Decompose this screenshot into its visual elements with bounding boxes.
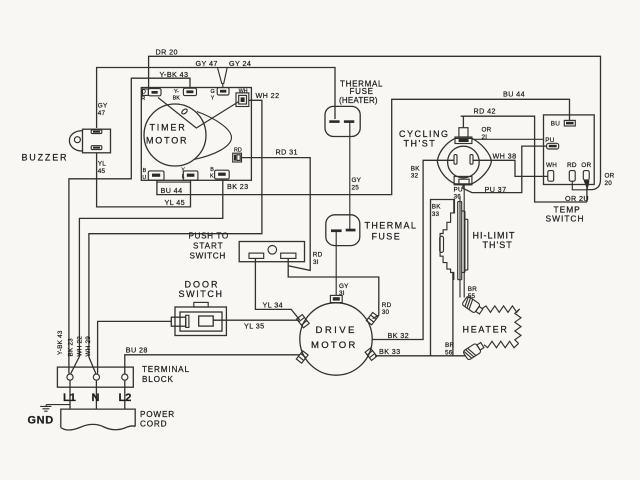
wire DR20 timer-OR to temp-switch-OR (149, 56, 601, 189)
svg-text:WH 29: WH 29 (85, 336, 92, 357)
buzzer hole (74, 137, 80, 143)
svg-text:TERMINAL: TERMINAL (142, 365, 190, 374)
pts circle (268, 246, 277, 255)
timer terminal OR (142, 89, 161, 96)
svg-text:45: 45 (98, 168, 106, 175)
buzzer terminal bottom (91, 146, 102, 150)
svg-text:SWITCH: SWITCH (179, 289, 224, 299)
svg-text:MOTOR: MOTOR (146, 136, 188, 146)
wire YL34 PTS to motor (255, 259, 299, 321)
svg-text:N: N (92, 392, 100, 404)
wire RD31 timer to push-to-start (242, 158, 311, 271)
timer terminal BK (215, 170, 230, 179)
svg-text:L: L (182, 174, 185, 180)
svg-text:GND: GND (28, 415, 54, 427)
svg-text:YL: YL (98, 161, 106, 168)
svg-text:47: 47 (98, 110, 106, 117)
temp terminal OR (583, 171, 589, 180)
wire WH22 timer to terminal block N (89, 100, 262, 373)
svg-text:BUZZER: BUZZER (22, 153, 69, 163)
svg-text:BK 33: BK 33 (379, 347, 401, 356)
svg-text:K: K (210, 174, 214, 180)
timer terminal RD right (233, 153, 242, 162)
svg-text:YL 35: YL 35 (244, 322, 265, 331)
svg-text:BK: BK (411, 165, 420, 172)
wire cycling top to RD42 line (461, 116, 587, 202)
hi-limit thermostat body (440, 200, 454, 281)
svg-text:OR: OR (482, 127, 492, 134)
svg-text:DRIVE: DRIVE (316, 325, 357, 336)
motor left-bottom terminal (296, 351, 308, 363)
svg-text:WH 22: WH 22 (76, 336, 83, 357)
thermal fuse heater blob (325, 106, 360, 136)
wire GY47 buzzer to thermal-fuse-heater (97, 68, 335, 129)
svg-text:20: 20 (605, 180, 613, 187)
heater connector BR55 (462, 296, 484, 316)
svg-text:HI-LIMIT: HI-LIMIT (473, 230, 516, 240)
wire BK23 timer to terminal block L1 (71, 180, 223, 373)
svg-text:GY: GY (98, 103, 108, 110)
svg-text:OR: OR (581, 162, 591, 169)
motor right-bottom terminal (365, 348, 377, 360)
svg-text:BK 23: BK 23 (227, 182, 249, 191)
temp switch box (544, 115, 595, 185)
svg-text:GY: GY (352, 177, 362, 184)
timer cam lobe (194, 112, 232, 160)
svg-text:(HEATER): (HEATER) (339, 96, 378, 105)
wire BU28 terminal block L2 to motor (125, 355, 300, 374)
svg-text:BU 44: BU 44 (161, 186, 183, 195)
svg-text:WH: WH (239, 88, 248, 94)
wire Y-BK43 timer to terminal block L1 (69, 78, 190, 373)
svg-text:MOTOR: MOTOR (311, 340, 358, 351)
svg-text:B: B (143, 168, 147, 174)
svg-text:POWER: POWER (140, 410, 175, 419)
door switch contact (199, 316, 214, 326)
svg-text:RD: RD (313, 252, 323, 259)
motor top terminal (330, 295, 342, 302)
svg-text:HEATER: HEATER (463, 324, 509, 334)
svg-text:RD 42: RD 42 (474, 107, 496, 116)
terminal block box (57, 367, 133, 387)
wire WH29 door switch to terminal block N (98, 321, 172, 373)
svg-text:Y: Y (211, 96, 215, 102)
svg-text:WH: WH (546, 162, 557, 169)
timer terminal GY (217, 88, 229, 95)
svg-text:BK 23: BK 23 (68, 338, 75, 357)
fuse2 left dash (331, 229, 342, 232)
temp terminal RD (569, 171, 575, 182)
svg-text:SWITCH: SWITCH (546, 214, 585, 224)
door switch tab (194, 302, 208, 307)
temp terminal BU (564, 120, 575, 126)
svg-text:WH 38: WH 38 (493, 152, 517, 161)
svg-text:30: 30 (382, 309, 390, 316)
svg-text:PU: PU (545, 137, 554, 144)
post L2 (122, 374, 128, 380)
wire jumper above BU 44 label (157, 181, 191, 183)
timer terminal YL (183, 171, 198, 180)
wire BU44 timer to temp switch BU (157, 99, 570, 194)
svg-text:BU 28: BU 28 (126, 346, 148, 355)
svg-text:TIMER: TIMER (150, 123, 187, 133)
svg-text:G: G (211, 89, 215, 95)
svg-text:Y-: Y- (174, 89, 179, 95)
wire RD30 PTS to drive motor (288, 259, 379, 319)
svg-text:BK: BK (432, 204, 441, 211)
svg-text:32: 32 (411, 173, 419, 180)
svg-text:BK 32: BK 32 (388, 331, 410, 340)
cycling thermostat blob (437, 138, 491, 184)
svg-text:U: U (142, 175, 146, 181)
svg-text:PU: PU (454, 186, 463, 193)
wire BK33 motor to hi-limit and heater BR56 (375, 200, 466, 356)
svg-text:TH'ST: TH'ST (404, 138, 437, 148)
timer terminal BU (148, 171, 164, 180)
svg-text:SWITCH: SWITCH (190, 252, 227, 261)
wire GY25 between thermal fuses (349, 122, 351, 230)
temp terminal WH (548, 171, 554, 182)
power cord box (61, 409, 135, 430)
timer lever lines (158, 98, 239, 129)
svg-text:RD 31: RD 31 (276, 147, 298, 156)
svg-text:OR: OR (605, 173, 615, 180)
pts left terminal (249, 253, 264, 258)
hi-limit right steps (462, 211, 468, 272)
svg-text:BU 44: BU 44 (503, 90, 525, 99)
heater connector BR56 (463, 341, 486, 361)
junction wedge under OR terminal (584, 181, 590, 191)
svg-text:DOOR: DOOR (185, 279, 220, 289)
buzzer tab (69, 131, 82, 151)
svg-text:FUSE: FUSE (372, 232, 402, 242)
door switch plug (171, 315, 189, 327)
svg-text:RD: RD (382, 302, 392, 309)
svg-text:BLOCK: BLOCK (142, 375, 174, 384)
svg-text:WH 22: WH 22 (256, 91, 280, 100)
wire YL45 buzzer to timer YL (97, 153, 191, 207)
door switch outer (175, 307, 226, 336)
wire OR21 cycling to temp switch (472, 138, 544, 140)
heater zigzag top (482, 306, 520, 312)
wire ground to L1 (46, 404, 70, 406)
heater zigzag right (515, 309, 521, 344)
timer lever bead (181, 108, 188, 115)
fuse1 left dash (329, 120, 339, 123)
svg-text:33: 33 (432, 211, 440, 218)
svg-text:25: 25 (352, 185, 360, 192)
cycling left bar (454, 155, 457, 165)
timer motor box (141, 88, 251, 181)
svg-text:BR: BR (445, 342, 454, 349)
svg-text:PU 37: PU 37 (485, 185, 507, 194)
timer terminal Y-BK (183, 88, 196, 95)
hi-limit inner capsule (440, 236, 444, 252)
post N (93, 374, 99, 380)
post leads to power cord (70, 380, 125, 409)
svg-text:Y: Y (181, 167, 185, 173)
svg-text:START: START (193, 242, 224, 251)
wire hi-limit feed pair from cycling bottom to heater BR55 (460, 185, 464, 298)
temp terminal PU (547, 143, 559, 149)
drive motor circle (300, 303, 372, 375)
svg-text:OR 2U: OR 2U (565, 194, 589, 203)
svg-text:DR 20: DR 20 (156, 48, 178, 57)
svg-text:GY 47: GY 47 (196, 59, 218, 68)
motor left-top terminal (297, 315, 310, 328)
fuse1 right dash (344, 120, 354, 123)
svg-text:56: 56 (445, 349, 453, 356)
cycling inner circle (448, 146, 480, 178)
wire GY31 thermal fuse to motor top (335, 232, 337, 296)
wire GY24 drop to timer GY terminal (218, 68, 228, 88)
svg-text:3I: 3I (313, 259, 319, 266)
svg-text:YL 45: YL 45 (165, 198, 186, 207)
svg-text:FUSE: FUSE (350, 87, 374, 96)
svg-text:BR: BR (468, 286, 477, 293)
heater zigzag bottom (484, 341, 519, 347)
fuse2 right dash (346, 229, 356, 232)
wire BK32 motor to cycling thermostat (372, 160, 455, 339)
thermal fuse 2 blob (326, 215, 360, 246)
cycling bottom terminal (454, 176, 472, 184)
svg-text:CORD: CORD (140, 419, 167, 428)
svg-text:BU: BU (551, 120, 560, 127)
buzzer terminal top (91, 130, 102, 134)
hi-limit tall pair (458, 202, 462, 280)
svg-text:CYCLING: CYCLING (399, 129, 450, 139)
svg-text:L2: L2 (119, 392, 132, 404)
push to start switch box (239, 242, 304, 262)
post L1 (67, 374, 73, 380)
svg-text:THERMAL: THERMAL (365, 221, 418, 231)
motor right-top terminal (366, 312, 378, 324)
cycling right bar (470, 155, 473, 165)
wire PU36-PU37 cycling bottom to temp switch PU (463, 146, 547, 193)
svg-text:L1: L1 (63, 392, 76, 404)
cycling top terminal (455, 128, 472, 144)
svg-text:Y-BK 43: Y-BK 43 (57, 330, 64, 355)
wire YL35 door switch to motor (213, 319, 299, 321)
wire WH38 cycling to temp switch WH (473, 160, 548, 176)
svg-text:RD: RD (234, 148, 242, 154)
svg-text:RD: RD (567, 162, 577, 169)
door switch inner (180, 312, 222, 331)
svg-text:PUSH TO: PUSH TO (189, 231, 229, 240)
svg-text:R: R (141, 96, 145, 102)
buzzer body (83, 129, 111, 153)
svg-text:BK: BK (173, 96, 181, 102)
svg-text:Y-BK 43: Y-BK 43 (160, 70, 189, 79)
svg-text:B: B (210, 167, 214, 173)
svg-text:YL 34: YL 34 (263, 300, 284, 309)
svg-text:2I: 2I (482, 134, 488, 141)
timer terminal WH box (236, 93, 249, 107)
ground symbol (40, 405, 51, 412)
wire RD temp terminal drop (572, 181, 587, 190)
pts right terminal (281, 253, 296, 258)
svg-text:GY 24: GY 24 (229, 59, 251, 68)
svg-text:TH'ST: TH'ST (483, 240, 513, 250)
svg-text:O: O (142, 90, 146, 96)
timer motor circle (144, 104, 206, 166)
